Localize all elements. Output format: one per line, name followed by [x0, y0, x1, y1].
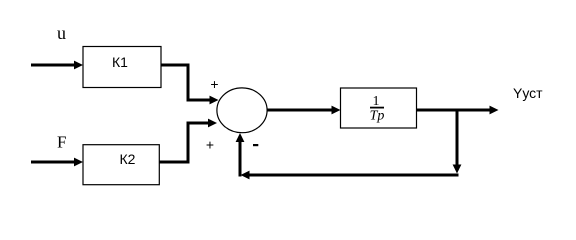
- input arrow F: [31, 158, 83, 167]
- svg-text:К1: К1: [112, 54, 128, 70]
- minus sign (feedback): [253, 144, 258, 146]
- feedback line (bottom, leftward): [241, 171, 459, 180]
- svg-text:1: 1: [373, 94, 380, 109]
- svg-text:Tp: Tp: [370, 109, 385, 124]
- wire summer to integrator: [267, 106, 341, 115]
- svg-text:+: +: [206, 137, 214, 153]
- svg-text:+: +: [210, 76, 218, 92]
- svg-text:К2: К2: [120, 151, 136, 167]
- feedback arrow into summer: [236, 133, 245, 177]
- svg-text:u: u: [57, 23, 66, 43]
- wire K2 to summer: [159, 119, 217, 162]
- input arrow u: [31, 61, 83, 70]
- fraction bar: [370, 107, 384, 109]
- feedback branch down: [453, 110, 462, 174]
- wire K1 to summer: [161, 65, 219, 104]
- block 1/Tp: [341, 88, 417, 128]
- output wire: [417, 106, 499, 115]
- svg-text:Yуст: Yуст: [513, 85, 543, 101]
- svg-text:F: F: [57, 133, 66, 152]
- block K2: [83, 145, 159, 185]
- summing junction: [217, 88, 267, 133]
- block K1: [83, 47, 161, 88]
